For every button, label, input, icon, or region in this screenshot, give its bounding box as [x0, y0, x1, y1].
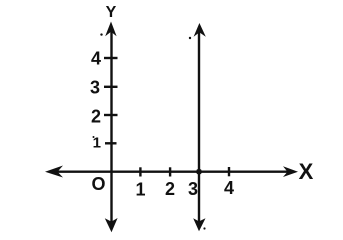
- y-axis top arrowhead: [105, 22, 116, 37]
- line x=3 bottom arrowhead: [193, 218, 205, 231]
- y-axis tick 4: [104, 57, 118, 59]
- x-axis tick 2: [169, 167, 171, 176]
- y-axis tick 3: [104, 86, 118, 88]
- svg-text:X: X: [299, 159, 314, 184]
- svg-text:4: 4: [224, 178, 234, 198]
- x-axis left arrowhead: [45, 166, 63, 178]
- svg-text:4: 4: [91, 49, 101, 69]
- line x=3 top arrowhead: [194, 23, 206, 37]
- svg-text:O: O: [91, 174, 105, 194]
- y-axis tick 2: [104, 114, 118, 116]
- speck left of line x=3 top arrowhead: [189, 37, 191, 39]
- y-axis tick 1: [105, 142, 117, 144]
- svg-text:2: 2: [165, 179, 175, 199]
- svg-text:3: 3: [188, 179, 198, 199]
- svg-text:3: 3: [90, 78, 100, 98]
- x-axis tick 1: [139, 167, 141, 176]
- x-axis right arrowhead: [283, 166, 298, 177]
- y-axis: [110, 30, 112, 222]
- svg-text:Y: Y: [106, 4, 117, 21]
- point (3,0): [196, 169, 202, 175]
- svg-text:1: 1: [135, 180, 145, 200]
- speck left of y-axis arrowhead: [100, 33, 102, 35]
- y-axis bottom arrowhead: [105, 218, 118, 232]
- x-axis tick 4: [228, 167, 230, 176]
- speck near line x=3 bottom arrowhead: [203, 227, 205, 229]
- vertical line x=3: [198, 31, 200, 222]
- speck near y-axis label 1: [93, 136, 95, 138]
- x-axis: [52, 170, 291, 172]
- svg-text:2: 2: [91, 107, 101, 127]
